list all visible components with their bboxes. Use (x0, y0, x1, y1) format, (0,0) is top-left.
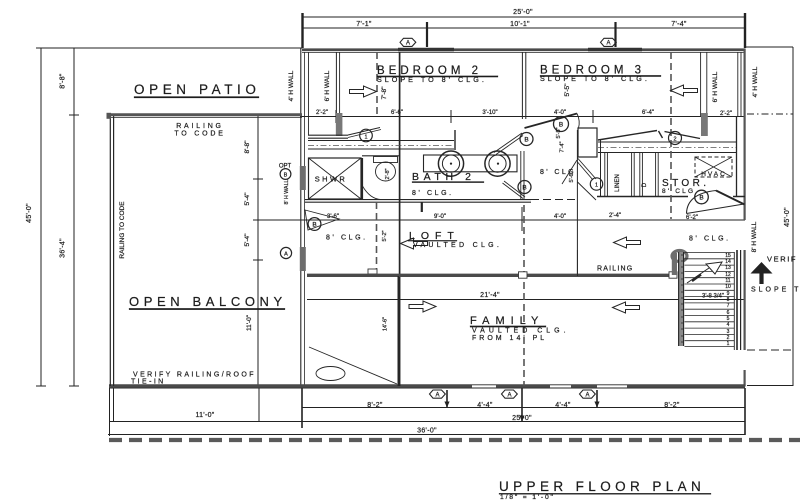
svg-text:6' H WALL: 6' H WALL (712, 71, 719, 102)
wall x577 stor to railing (576, 250, 578, 276)
svg-text:FAMILY: FAMILY (470, 315, 544, 327)
vanity counter bath2 (424, 155, 518, 172)
svg-text:36'-0": 36'-0" (417, 428, 437, 435)
bedroom2 left closet wall x308 (308, 52, 310, 135)
svg-text:TO CODE: TO CODE (174, 131, 225, 138)
svg-text:25'-0": 25'-0" (513, 9, 533, 16)
svg-text:7'-4": 7'-4" (560, 141, 566, 152)
svg-text:8'-2": 8'-2" (664, 402, 680, 409)
tick x302 bottom (301, 388, 303, 428)
svg-text:8' CLG: 8' CLG (662, 188, 695, 195)
bed2 closet bottom wall y136.5 (308, 135, 348, 138)
railing post left (107, 113, 112, 119)
closet divider x634 (605, 153, 658, 197)
arrow right bed2 (350, 86, 377, 97)
cabinet box hall (578, 128, 597, 157)
hexagon A bottom2 (502, 390, 518, 398)
svg-text:10: 10 (725, 284, 731, 290)
top exterior wall (302, 48, 745, 51)
svg-text:2'-4": 2'-4" (609, 213, 621, 219)
svg-text:VAULTED CLG.: VAULTED CLG. (472, 328, 570, 335)
closet divider x737 (736, 116, 738, 196)
svg-text:25'-0": 25'-0" (512, 415, 532, 422)
svg-text:TIE-IN: TIE-IN (131, 379, 166, 386)
svg-text:A: A (284, 252, 288, 258)
sink 1 (438, 151, 463, 176)
svg-text:VAULTED CLG.: VAULTED CLG. (413, 242, 502, 249)
inner dim line x258 (253, 115, 263, 386)
bedroom divider wall x524 (522, 52, 525, 119)
dim line 25'-0" top (303, 16, 746, 18)
toilet bath2 (374, 157, 398, 163)
svg-text:VERIFY RAILING/ROOF: VERIFY RAILING/ROOF (133, 372, 256, 379)
svg-text:7: 7 (727, 303, 730, 309)
stairwell wall x737 (736, 250, 738, 350)
svg-text:OPEN BALCONY: OPEN BALCONY (129, 294, 287, 309)
svg-text:A: A (507, 392, 511, 398)
left exterior wall of main body x302 (300, 49, 302, 387)
hexagon A bottom1 (430, 390, 446, 398)
tick arrowheads (444, 402, 599, 422)
bath2 door swing top (494, 133, 523, 155)
tag circle balcony wall lower (280, 247, 291, 258)
door tag circle B bath bottom (518, 181, 531, 194)
svg-text:A: A (606, 41, 610, 47)
door tag circle 1 hall (590, 178, 602, 190)
svg-text:A: A (585, 392, 589, 398)
hexagon A bottom3 (580, 390, 596, 398)
svg-text:SLOPE TO 8' CLG.: SLOPE TO 8' CLG. (540, 74, 650, 83)
svg-text:5'-6": 5'-6" (569, 171, 575, 182)
svg-text:11'-0": 11'-0" (195, 412, 214, 419)
svg-text:5'-5": 5'-5" (564, 83, 571, 97)
svg-text:SHWR: SHWR (315, 175, 348, 184)
long dashed line y440 (109, 438, 800, 442)
stairs treads (685, 253, 735, 347)
bath2 right wall x522 (521, 151, 524, 200)
closet row bottom wall (597, 196, 745, 198)
svg-text:13: 13 (725, 265, 731, 271)
svg-text:3'-10": 3'-10" (482, 110, 497, 116)
svg-text:SLOPE TO 8' CLG.: SLOPE TO 8' CLG. (377, 75, 487, 84)
bath/bed2 wall x400 (399, 52, 401, 386)
svg-text:RAILING TO CODE: RAILING TO CODE (119, 201, 126, 259)
dim line 7'-1"/10'-1"/7'-4" (303, 27, 746, 29)
arrow left loft (401, 238, 428, 249)
arrow right family (409, 301, 436, 312)
svg-text:A: A (435, 392, 439, 398)
svg-text:5'-2": 5'-2" (382, 230, 388, 241)
svg-text:6'-6": 6'-6" (391, 110, 403, 116)
svg-text:1/8" = 1'-0": 1/8" = 1'-0" (500, 494, 555, 500)
post at dash end (368, 269, 377, 274)
dark wall segment x302 y167 (300, 166, 306, 190)
stairs newel (672, 253, 677, 275)
svg-text:B: B (522, 185, 526, 192)
dashed slope line bed2 x377 (376, 52, 378, 116)
right dim line 45'-0" x793 (792, 47, 794, 386)
shower right wall (361, 158, 363, 199)
sink 2 (485, 151, 510, 176)
dashed slope line bed3 x671 (670, 52, 672, 219)
dashed opening right y350 (747, 349, 793, 351)
svg-text:6'-4": 6'-4" (642, 110, 654, 116)
svg-text:8' H WALL: 8' H WALL (284, 179, 290, 204)
svg-text:45'-0": 45'-0" (26, 203, 33, 223)
door tag circle bifold (669, 132, 682, 145)
hexagon A top2 (601, 38, 617, 46)
svg-text:36'-4": 36'-4" (60, 238, 67, 258)
svg-text:6' H WALL: 6' H WALL (324, 70, 331, 101)
bath2 bottom wall y200.5 (305, 200, 531, 203)
svg-text:B: B (559, 122, 563, 129)
patio railing y115 (107, 113, 302, 116)
door tag letters (284, 122, 704, 258)
loft door arc wall (305, 210, 339, 230)
svg-text:1: 1 (595, 183, 598, 189)
svg-text:6'-2": 6'-2" (686, 215, 698, 221)
right top extension (745, 46, 793, 48)
door tag circle B bed3 (554, 117, 569, 132)
dark fill right closet wall (701, 113, 708, 136)
svg-text:14'-6": 14'-6" (383, 317, 389, 331)
dim row y220 loft (253, 219, 745, 221)
bed2 closet door diagonal (348, 128, 381, 138)
bottom exterior wall base line (109, 387, 745, 389)
svg-text:SLOPE T: SLOPE T (751, 287, 800, 294)
hexagon A top1 (400, 38, 416, 46)
door tag circle 1 closet (360, 129, 373, 142)
arrow left stor row (614, 237, 641, 248)
family left wall x399 (397, 276, 399, 386)
svg-text:4: 4 (727, 322, 730, 328)
stairs left rail (679, 252, 684, 346)
railing break box x673 (669, 272, 677, 278)
wall x455 shelf end (454, 130, 456, 150)
door tag circle B stor (695, 190, 709, 204)
svg-text:UPPER FLOOR PLAN: UPPER FLOOR PLAN (499, 479, 705, 494)
bath2 door swing bottom (503, 181, 526, 199)
bed3 entry door arc (525, 114, 578, 129)
svg-text:4'-4": 4'-4" (555, 402, 571, 409)
bottom ticks row1 (447, 388, 745, 435)
loft door jamb stub (421, 202, 423, 212)
svg-text:2'-8": 2'-8" (385, 168, 391, 179)
dark fill closet wall bottom (336, 113, 342, 136)
shower SHWR box (309, 158, 362, 199)
svg-text:8'-8": 8'-8" (244, 140, 251, 154)
roof slope diagonal lower-left room (309, 347, 397, 384)
left dim line 45'-0" x41 (36, 48, 46, 386)
right shelf hatch band (598, 142, 737, 153)
svg-text:8'-8": 8'-8" (60, 73, 67, 89)
dark wall segment x302 y248 (300, 247, 306, 271)
svg-text:1: 1 (364, 134, 367, 140)
svg-text:LINEN: LINEN (615, 174, 621, 192)
svg-text:5'-5": 5'-5" (556, 127, 562, 138)
svg-text:9'-0": 9'-0" (434, 214, 446, 220)
door tag circle B bath top (520, 133, 533, 146)
svg-text:2'-2": 2'-2" (720, 111, 732, 117)
svg-text:2: 2 (673, 137, 676, 143)
svg-text:3'-8 3/4": 3'-8 3/4" (702, 294, 724, 300)
bifold closet doors bed3 (598, 131, 700, 141)
svg-text:D: D (642, 182, 648, 187)
window header bedroom3 (588, 48, 642, 52)
svg-text:VERIF: VERIF (767, 255, 797, 264)
svg-text:OPEN PATIO: OPEN PATIO (134, 82, 261, 97)
left dim line x74 (69, 48, 79, 386)
svg-text:4' H WALL: 4' H WALL (288, 70, 295, 101)
tick at 609 (614, 22, 616, 47)
closet divider x600 (600, 140, 602, 196)
svg-text:7'-8": 7'-8" (381, 86, 388, 100)
right exterior wall x745 (743, 49, 745, 221)
railing break box x523 (519, 272, 528, 278)
svg-text:2'-2": 2'-2" (316, 110, 328, 116)
left shelf hatch band (308, 141, 454, 150)
svg-text:3'-6": 3'-6" (327, 214, 339, 220)
arrow up right side (759, 272, 763, 284)
svg-text:B: B (699, 195, 703, 202)
svg-text:4'-4": 4'-4" (477, 402, 493, 409)
opt tag circle balcony wall (280, 169, 291, 180)
svg-text:B: B (284, 173, 288, 179)
svg-text:10'-1": 10'-1" (510, 21, 530, 28)
svg-text:RAILING: RAILING (176, 123, 224, 130)
svg-text:A: A (406, 41, 410, 47)
svg-text:HVAC: HVAC (701, 171, 727, 178)
svg-text:B: B (312, 222, 316, 229)
window header bedroom2 (398, 48, 454, 52)
svg-text:4'-0": 4'-0" (554, 110, 566, 116)
family railing y275.5 (307, 274, 672, 277)
svg-text:OPT: OPT (279, 164, 292, 170)
svg-text:BATH 2: BATH 2 (412, 171, 476, 183)
center dashed line x524 (523, 205, 525, 386)
svg-text:5'-4": 5'-4" (244, 233, 251, 247)
toilet room top wall (362, 155, 399, 157)
bottom wall thick segments + window headers (109, 384, 745, 387)
tick x259 bottom (258, 388, 260, 422)
tick x522 y197-230 (521, 207, 523, 231)
dim row ticks y116 (336, 110, 593, 123)
svg-text:8' H WALL: 8' H WALL (751, 221, 758, 252)
arrow left bed3 (671, 85, 698, 96)
ellipse detail (tub) (316, 367, 345, 381)
svg-text:7'-4": 7'-4" (671, 21, 687, 28)
bottom dim row y407.5 (302, 407, 745, 409)
HVAC box (695, 157, 732, 177)
arrow left family (613, 302, 640, 313)
thin sill lines at wall gaps (472, 384, 627, 386)
svg-text:8'-2": 8'-2" (367, 402, 383, 409)
right closet strip walls x704/x739 (701, 52, 707, 116)
stairs up arrow (687, 268, 709, 283)
dashed slope line loft x376.5 (376, 202, 378, 269)
svg-text:7'-1": 7'-1" (356, 21, 372, 28)
stairs numbers (725, 253, 731, 347)
dim line 21'-4" y299.5 (307, 299, 745, 301)
svg-text:8' CLG.: 8' CLG. (689, 236, 731, 243)
balcony left wall x112 (109, 114, 111, 386)
svg-text:1: 1 (727, 341, 730, 347)
bedroom2 closet wall x337 (335, 52, 337, 136)
bath2 bottom wall dashed part (531, 199, 577, 201)
left extension x109 bottom (110, 388, 114, 436)
svg-text:B: B (524, 137, 528, 144)
svg-text:4' H WALL: 4' H WALL (752, 66, 759, 97)
bottom dim row y434.5 36'-0" (108, 434, 745, 436)
hall wall x577 (576, 130, 578, 276)
stairs right stringer (733, 252, 735, 350)
hall door diagonals (578, 158, 597, 180)
right bottom extension (747, 385, 793, 387)
svg-text:FROM 14' PL: FROM 14' PL (472, 335, 547, 342)
dim row y116 (300, 116, 745, 118)
svg-text:RAILING: RAILING (597, 266, 633, 273)
top line over patio (39, 47, 302, 49)
bottom dim row y421.5 11'-0"/25'-0" (109, 421, 745, 423)
stor door arc (687, 191, 717, 214)
svg-text:8' CLG.: 8' CLG. (412, 190, 454, 197)
svg-text:45'-0": 45'-0" (784, 207, 791, 227)
svg-text:11'-0": 11'-0" (246, 314, 253, 331)
door tag circle B loft (308, 218, 321, 231)
svg-text:4'-0": 4'-0" (554, 214, 566, 220)
tick at 427 (426, 22, 428, 47)
svg-text:21'-4": 21'-4" (480, 292, 500, 299)
dash-dot right y114 (747, 113, 793, 115)
hexagon letters (406, 41, 611, 399)
svg-text:5'-4": 5'-4" (244, 192, 251, 206)
svg-text:8' CLG.: 8' CLG. (326, 235, 368, 242)
